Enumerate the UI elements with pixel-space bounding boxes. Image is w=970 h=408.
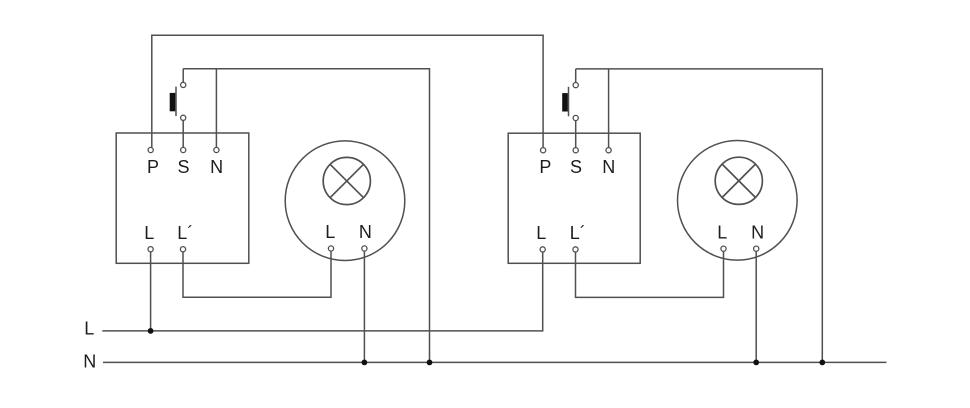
svg-text:N: N bbox=[359, 222, 372, 242]
node junction N rail / S-line 1 bbox=[427, 360, 433, 366]
svg-text:L: L bbox=[325, 222, 335, 242]
terminal L'1 bbox=[180, 247, 185, 252]
svg-text:P: P bbox=[539, 157, 551, 177]
wire lamp E1 N to N rail bbox=[363, 251, 365, 362]
svg-text:P: P bbox=[147, 157, 159, 177]
terminal N1 bbox=[214, 147, 219, 152]
wire S-line to N2 bbox=[608, 69, 610, 148]
wire L'2 to lamp E2 L bbox=[576, 251, 724, 297]
node junction N rail / lamp E1 N bbox=[362, 360, 368, 366]
node junction N rail / S-line 2 bbox=[819, 360, 825, 366]
lamp E1 terminal L bbox=[328, 246, 333, 251]
lamp E2 terminal L bbox=[721, 246, 726, 251]
lamp E1 bulb bbox=[323, 157, 370, 204]
lamp E1 body bbox=[285, 141, 405, 261]
wire S-line to N1 bbox=[215, 69, 217, 148]
push-button S2 actuator bbox=[562, 93, 568, 111]
sensor box U1 bbox=[116, 133, 249, 263]
node junction N rail / lamp E2 N bbox=[753, 360, 759, 366]
lamp E2 bulb bbox=[715, 157, 762, 204]
sensor box U2 bbox=[508, 133, 640, 263]
push-button S2 bottom terminal bbox=[573, 115, 578, 120]
push-button S1 bottom terminal bbox=[181, 115, 186, 120]
push-button S2 top terminal bbox=[573, 83, 578, 88]
lamp E2 body bbox=[678, 141, 798, 261]
terminal P1 bbox=[148, 147, 153, 152]
svg-text:L´: L´ bbox=[570, 223, 586, 243]
push-button S1 actuator bbox=[170, 93, 176, 111]
svg-text:N: N bbox=[602, 157, 615, 177]
svg-text:S: S bbox=[177, 157, 189, 177]
wire button2 top to S-line bbox=[575, 69, 577, 83]
wire L1 to L rail bbox=[150, 252, 152, 331]
svg-text:L: L bbox=[144, 223, 154, 243]
wire top rail P1 to P2 bbox=[152, 35, 543, 147]
wire button1 top to S-line bbox=[182, 69, 184, 83]
wire L rail bbox=[102, 252, 542, 331]
push-button S1 bridge bbox=[175, 87, 177, 117]
svg-text:N: N bbox=[751, 222, 764, 242]
wire button1 bottom to S1 bbox=[182, 121, 184, 148]
lamp E2 cross bbox=[722, 164, 755, 197]
svg-text:L: L bbox=[84, 319, 94, 339]
svg-text:S: S bbox=[570, 157, 582, 177]
svg-text:N: N bbox=[210, 157, 223, 177]
terminal S1 bbox=[181, 147, 186, 152]
terminal L2 bbox=[540, 247, 545, 252]
terminal N2 bbox=[606, 148, 611, 153]
svg-text:N: N bbox=[83, 352, 96, 372]
wire lamp E2 N to N rail bbox=[755, 251, 757, 362]
lamp E2 terminal N bbox=[754, 246, 759, 251]
terminal L'2 bbox=[573, 247, 578, 252]
lamp E1 terminal N bbox=[362, 246, 367, 251]
wire S-line section1 bbox=[183, 69, 429, 363]
push-button S2 bridge bbox=[568, 87, 570, 117]
svg-text:L: L bbox=[717, 222, 727, 242]
wire button2 bottom to S2 bbox=[575, 121, 577, 148]
wire N rail bbox=[103, 361, 887, 363]
lamp E1 cross bbox=[330, 164, 363, 197]
wire S-line section2 bbox=[576, 69, 823, 363]
terminal S2 bbox=[573, 148, 578, 153]
wire L'1 to lamp E1 L bbox=[183, 251, 331, 297]
svg-text:L´: L´ bbox=[177, 223, 193, 243]
push-button S1 top terminal bbox=[181, 82, 186, 87]
terminal L1 bbox=[148, 247, 153, 252]
svg-text:L: L bbox=[536, 223, 546, 243]
node junction L rail / L1 bbox=[148, 328, 154, 334]
terminal P2 bbox=[541, 148, 546, 153]
